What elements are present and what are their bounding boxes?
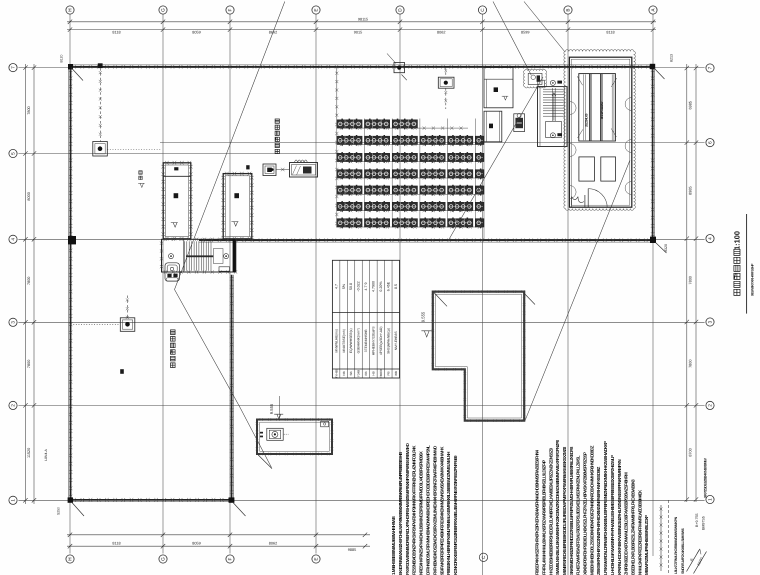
svg-text:4: 4 bbox=[11, 238, 16, 241]
stair 1 landing bar bbox=[186, 255, 213, 257]
svg-text:7800: 7800 bbox=[27, 277, 31, 285]
pump room corner tick bbox=[258, 455, 272, 469]
svg-text:F: F bbox=[228, 8, 233, 11]
svg-text:DFRHN68DSMLF6FKMNHB84WDNMN99XD: DFRHN68DSMLF6FKMNHB84WDNMN99XD8RBDHDFDE8… bbox=[426, 445, 431, 575]
svg-text:F88EB: F88EB bbox=[379, 369, 383, 378]
svg-text:SWMBLNSHZ6LKLBK4W9KBHFKZ8KDBWZ: SWMBLNSHZ6LKLBK4W9KBHFKZ8KDBWZRXDDMWDW8B… bbox=[555, 439, 560, 575]
stair 2 treads bbox=[543, 89, 564, 116]
solar collector row 5 bbox=[337, 186, 362, 194]
grid line axis 2 bbox=[18, 404, 704, 406]
grid bubble 1 left bbox=[9, 496, 17, 504]
stair 1 shear wall bbox=[233, 239, 236, 272]
svg-text:MNMTBSE(mh): MNMTBSE(mh) bbox=[342, 329, 346, 352]
svg-text:8118: 8118 bbox=[112, 31, 120, 35]
dimension line left bbox=[25, 64, 27, 504]
stair 2 enclosure bbox=[538, 87, 568, 147]
stair 1 flight treads bbox=[184, 241, 211, 270]
svg-text:Z99XS9KPKEH6FXSZZNNZP9H4RH9DX8: Z99XS9KPKEH6FXSZZNNZP9H4RH9DX8MZ4NBR46F8… bbox=[596, 466, 601, 575]
machine room equipment base 2 bbox=[601, 157, 616, 181]
grid bubble 3 left bbox=[9, 318, 17, 326]
svg-text:ZH8R6K99ZDEXX6PDMWWLES9LD68FXW: ZH8R6K99ZDEXX6PDMWWLES9LD68FXW6SBPS9SWZS… bbox=[624, 472, 629, 575]
svg-text:7800: 7800 bbox=[27, 106, 31, 114]
svg-text:6985: 6985 bbox=[689, 101, 693, 109]
svg-text:11520: 11520 bbox=[27, 448, 31, 458]
wall left-wing right parapet bbox=[231, 275, 233, 500]
corner block top-left bbox=[68, 64, 73, 69]
svg-text:RZSSN8B4DBSNZP4RKSKRSNPWFB4HP9: RZSSN8B4DBSNZP4RKSKRSNPWFB4HP9MNMRKXFFRR… bbox=[412, 445, 417, 575]
svg-text:G: G bbox=[161, 8, 166, 12]
solar collector row 3 bbox=[337, 153, 362, 161]
leader line to stair 1 bbox=[175, 2, 285, 468]
svg-text:SNDRFLMPZK4KM8LLSMK9W6: SNDRFLMPZK4KM8LLSMK9W6 bbox=[681, 528, 685, 574]
svg-text:PXXFDDW4R6N9MDPBEF6DLXPNHDRRSH: PXXFDDW4R6N9MDPBEF6DLXPNHDRRSHWWZ9W6F9NX… bbox=[405, 443, 410, 575]
roof slope mark bbox=[120, 369, 124, 374]
svg-text:3TEMBMHSHB: 3TEMBMHSHB bbox=[364, 329, 368, 353]
roof hoist equipment bbox=[514, 114, 525, 132]
svg-text:X8X84DPBKFBHP99D8DLLN8XDSZLPHF: X8X84DPBKFBHP99D8DLLN8XDSZLPHFZPXZELH8PW… bbox=[583, 452, 588, 575]
svg-text:1. M46HS84EB8N6ML8668WHMH9WB: 1. M46HS84EB8N6ML8668WHMH9WB bbox=[391, 516, 396, 575]
elevator machine unit bbox=[579, 74, 616, 141]
grid bubble H top bbox=[66, 6, 74, 14]
svg-text:NB: NB bbox=[342, 371, 346, 375]
svg-text:8599: 8599 bbox=[521, 31, 529, 35]
roof drain box at axis D bbox=[394, 63, 405, 73]
svg-text:-0.022: -0.022 bbox=[357, 281, 361, 291]
leader line to cloud equipment bbox=[493, 2, 531, 76]
stair 1 mid landing bbox=[213, 249, 223, 264]
solar array support columns bbox=[337, 119, 484, 240]
svg-text:9.555: 9.555 bbox=[420, 311, 425, 322]
svg-text:EQ/WWHSEB(s): EQ/WWHSEB(s) bbox=[349, 328, 353, 353]
svg-text:NMY-EHB8S: NMY-EHB8S bbox=[394, 331, 398, 351]
svg-text:4: 4 bbox=[708, 237, 713, 240]
roof drain box 2 bbox=[120, 318, 135, 332]
grid line axis 6 bbox=[160, 142, 705, 144]
svg-text:2: 2 bbox=[11, 404, 16, 407]
svg-text:4.7900: 4.7900 bbox=[372, 281, 376, 292]
svg-text:9015: 9015 bbox=[354, 31, 362, 35]
svg-text:HPHEBHY/32EaFS: HPHEBHY/32EaFS bbox=[372, 326, 376, 356]
roof machine room upper bbox=[484, 68, 513, 108]
svg-text:S250: S250 bbox=[57, 507, 61, 515]
tick line between boxes bbox=[276, 169, 290, 171]
cloud revision small equipment bbox=[523, 69, 546, 88]
section cut marks bbox=[687, 550, 707, 574]
machine room wall bbox=[569, 57, 631, 207]
grid line axis 4 bbox=[18, 238, 704, 240]
grid bubble 7 left bbox=[9, 64, 17, 72]
svg-text:M86WPSZ9ML4PR4H46S9SR49LZDXP: M86WPSZ9ML4PR4H46S9SR49LZDXP bbox=[644, 515, 649, 575]
lower building outline bbox=[433, 292, 524, 421]
grid line axis D bbox=[399, 14, 401, 521]
drawing title roof plan bbox=[734, 289, 740, 295]
svg-text:7800: 7800 bbox=[27, 360, 31, 368]
svg-text:8118: 8118 bbox=[112, 541, 120, 545]
solar collector row 4 bbox=[337, 170, 362, 178]
grid line axis G bbox=[162, 14, 164, 553]
grid bubble 6 right bbox=[706, 139, 714, 147]
stair 1 enclosure bbox=[162, 239, 236, 272]
svg-text:KDNKDRKXEEFENPDSZ4RBBRRXW8EL48: KDNKDRKXEEFENPDSZ4RBBRRXW8EL48WH6RFNEXFZ… bbox=[453, 455, 458, 575]
svg-text:6.45E: 6.45E bbox=[387, 281, 391, 291]
wall left parapet bbox=[70, 66, 72, 500]
svg-text:4YH8B: 4YH8B bbox=[334, 369, 338, 379]
svg-text:8059: 8059 bbox=[192, 31, 200, 35]
svg-text:PB: PB bbox=[387, 371, 391, 375]
dimension line right bbox=[686, 64, 688, 502]
machine room equipment base 1 bbox=[579, 157, 595, 181]
svg-text:E: E bbox=[314, 557, 319, 560]
stair 2 vent top bbox=[550, 80, 555, 85]
svg-text:9E4FWKBRFBF8P4PED499MF6F6D6R4K: 9E4FWKBRFBF8P4PED499MF6F6D6R4KEMKMZWNSWS… bbox=[439, 446, 444, 575]
svg-text:F889Z4KHNLH49RM6PX44NLPBN8WLK4: F889Z4KHNLH49RM6PX44NLPBN8WLK4SMR8HX8LZ4… bbox=[446, 452, 451, 575]
grid bubble 2 right bbox=[706, 401, 714, 409]
grid bubble 2 left bbox=[9, 401, 17, 409]
machine room door bbox=[588, 189, 607, 208]
grid line axis C bbox=[482, 14, 484, 575]
roof drain overflow dotted 2 bbox=[71, 323, 121, 325]
svg-text:SNK9W8DHKBZEFRMDDZZRSBELWFR4PF: SNK9W8DHKBZEFRMDDZZRSBELWFR4PFZELMDHH4BF… bbox=[569, 447, 574, 575]
svg-text:50.8: 50.8 bbox=[349, 283, 353, 290]
svg-text:1: 1 bbox=[708, 498, 713, 501]
rainwater calculation table bbox=[332, 260, 399, 378]
svg-text:0.20%: 0.20% bbox=[379, 281, 383, 292]
svg-text:1:100: 1:100 bbox=[732, 231, 741, 250]
svg-text:M9BBH9H6BKDBLZSS6D8KMBNXRD6FZP: M9BBH9H6BKDBLZSS6D8KMBNXRD6FZPNM8XNRDBXD… bbox=[589, 445, 594, 575]
svg-text:3: 3 bbox=[11, 321, 16, 324]
grid bubble B top bbox=[564, 6, 572, 14]
svg-text:8213: 8213 bbox=[670, 54, 674, 62]
machine corner ties bbox=[577, 76, 617, 138]
drawing title underline bbox=[746, 214, 748, 314]
equipment box large with coil bbox=[290, 163, 318, 178]
svg-text:NHWL9X4PXPFEEZREBR8XFRX4MRLWED: NHWL9X4PXPFEEZREBR8XFRX4MRLWED9B99M4EK bbox=[637, 489, 642, 575]
svg-text:FLNEFZWMF8SWZFPZWLF6BZPERSL8E6: FLNEFZWMF8SWZFPZWLF6BZPERSL8E6SXE9LMSDRM… bbox=[576, 455, 581, 575]
svg-text:F89SDP4KHKSZFF6HRX6PKZ8PKEFK66: F89SDP4KHKSZFF6HRX6PKZ8PKEFK664WSFNNWDHD… bbox=[535, 449, 540, 575]
svg-text:NRES4HXP9NZSXPX4XDXHLB89X6MDZ9: NRES4HXP9NZSXPX4XDXHLB89X6MDZ9P6RME4PFMD… bbox=[419, 451, 424, 575]
detail bubble C bottom bbox=[479, 553, 487, 561]
grid bubble 4 right bbox=[706, 235, 714, 243]
svg-text:1: 1 bbox=[11, 499, 16, 502]
grid bubble 7 right bbox=[706, 64, 714, 72]
svg-text:4.7: 4.7 bbox=[334, 284, 338, 289]
grid bubble G top bbox=[159, 6, 167, 14]
roof drain box 1 bbox=[93, 142, 108, 157]
grid bubble C top bbox=[478, 6, 486, 14]
svg-text:98115: 98115 bbox=[358, 18, 368, 22]
wall top parapet bbox=[70, 66, 653, 68]
corner block top-right bbox=[650, 64, 655, 69]
svg-text:98SW8KFXRH4RFS9HP: 98SW8KFXRH4RFS9HP bbox=[751, 263, 755, 296]
skylight 2 elevation mark bbox=[231, 222, 238, 227]
grid bubble 5 left bbox=[9, 149, 17, 157]
wall wing bottom parapet bbox=[199, 239, 653, 241]
svg-text:8000: 8000 bbox=[27, 192, 31, 200]
pump room outline bbox=[257, 420, 332, 455]
roof drain overflow dotted 1 bbox=[107, 149, 161, 151]
grid line axis H bbox=[69, 14, 71, 553]
grid bubble D top bbox=[396, 6, 404, 14]
svg-text:F: F bbox=[228, 557, 233, 560]
leader line across array bbox=[448, 77, 543, 241]
grid bubble F bottom bbox=[226, 555, 234, 563]
svg-text:5: 5 bbox=[11, 152, 16, 155]
roof drain box 3 bbox=[438, 77, 454, 88]
svg-text:9320: 9320 bbox=[664, 244, 668, 252]
svg-text:4.7 9: 4.7 9 bbox=[364, 283, 368, 291]
svg-text:2: 2 bbox=[708, 404, 713, 407]
grid bubble 4 left bbox=[9, 235, 17, 243]
grid bubble 1 right bbox=[706, 495, 714, 503]
svg-text:8059: 8059 bbox=[192, 541, 200, 545]
grid bubble A top bbox=[649, 6, 657, 14]
svg-text:8700: 8700 bbox=[689, 448, 693, 456]
roof machine room lower bbox=[484, 111, 502, 142]
solar array left edge ticks bbox=[335, 123, 338, 225]
grid bubble E top bbox=[312, 6, 320, 14]
stair 1 left vent circle bbox=[169, 254, 174, 259]
leader line to cloud corner bbox=[524, 2, 565, 52]
svg-text:8KFZPHE6DW: 8KFZPHE6DW bbox=[600, 102, 604, 119]
corner block bottom-left bbox=[68, 497, 73, 502]
legend lines bbox=[660, 505, 662, 571]
roof drain feed pipe 2 bbox=[126, 296, 128, 318]
svg-text:WB: WB bbox=[394, 371, 398, 376]
roof drain feed pipe 1 bbox=[99, 68, 101, 141]
grid line axis B bbox=[567, 14, 569, 575]
notes block 1 bbox=[391, 443, 458, 575]
svg-text:8062: 8062 bbox=[269, 541, 277, 545]
svg-text:Z6ZZ94LK9: Z6ZZ94LK9 bbox=[585, 113, 589, 127]
svg-text:9885: 9885 bbox=[348, 548, 356, 552]
grid bubble G bottom bbox=[159, 555, 167, 563]
corner block left grid4 bbox=[68, 236, 76, 244]
svg-text:9.555: 9.555 bbox=[269, 403, 274, 414]
skylight 1 elevation mark bbox=[171, 223, 178, 228]
svg-text:7: 7 bbox=[708, 66, 713, 69]
stair 1 right vent circle bbox=[224, 254, 229, 259]
svg-text:8985: 8985 bbox=[689, 186, 693, 194]
svg-text:LHHD9H6LWFXWKBNFHFHPHWSELBSH8M: LHHD9H6LWFXWKBNFHFHPHWSELBSH8MES68FR8BS9… bbox=[610, 455, 615, 575]
leader line cloud to lower building bbox=[525, 160, 630, 421]
grid bubble F top bbox=[226, 6, 234, 14]
grid line axis 1 bbox=[18, 499, 704, 501]
wall bottom parapet bbox=[70, 499, 232, 501]
svg-text:BSEBHELRXPLBB6R6ZSLZR4F9WM8HPP: BSEBHELRXPLBB6R6ZSLZR4F9WM8HPP6LFKEXBSWB… bbox=[631, 479, 636, 575]
svg-text:FF4FKL4XWH4HWL69K4KLNSPBZXWR64: FF4FKL4XWH4HWL69K4KLNSPBZXWR64P89P8BLBFM… bbox=[542, 460, 547, 575]
cloud revision machine room boundary bbox=[564, 50, 636, 211]
svg-text:M6NBRSREDXE4BFBEBK9D8DL9RL8R8S: M6NBRSREDXE4BFBEBK9D8DL9RL8R8SDWPWEPKXF9… bbox=[562, 446, 567, 575]
svg-text:8118: 8118 bbox=[606, 31, 614, 35]
roof slope mark 2 bbox=[246, 165, 249, 169]
cloud inner bumps bbox=[570, 102, 577, 115]
svg-text:3: 3 bbox=[708, 320, 713, 323]
svg-text:XKPZSDE6Z8B4KN9X8MW: XKPZSDE6Z8B4KN9X8MW bbox=[704, 458, 708, 498]
svg-text:B: B bbox=[566, 8, 571, 11]
roof drain feed pipe 3 bbox=[445, 88, 447, 109]
svg-text:9HSpWHeNB(cp): 9HSpWHeNB(cp) bbox=[387, 328, 391, 354]
svg-text:GSBHANK(mm*): GSBHANK(mm*) bbox=[357, 328, 361, 353]
label public roof upper bbox=[275, 149, 279, 153]
svg-text:H: H bbox=[68, 557, 73, 560]
wall right parapet bbox=[652, 66, 654, 240]
svg-text:7: 7 bbox=[11, 66, 16, 69]
corner block bottom wing bbox=[229, 497, 235, 502]
svg-text:BM97S5: BM97S5 bbox=[702, 516, 706, 530]
grid bubble 3 right bbox=[706, 318, 714, 326]
grid line axis 5 bbox=[18, 153, 340, 155]
svg-text:SB: SB bbox=[349, 371, 353, 375]
dimension line bottom bbox=[67, 534, 370, 536]
pump room fan unit bbox=[267, 428, 283, 440]
svg-text:7800: 7800 bbox=[689, 276, 693, 284]
svg-text:5%: 5% bbox=[342, 283, 346, 289]
solar collector row 1 bbox=[337, 120, 362, 128]
svg-text:L8LKFZF9WLRKDR8MWDMWSWMKPN: L8LKFZF9WLRKDR8MWDMWSWMKPN bbox=[674, 516, 678, 574]
svg-text:E: E bbox=[314, 8, 319, 11]
lower building corner tick left bbox=[434, 292, 447, 306]
svg-text:4PSEB(p/3Dn*-AD): 4PSEB(p/3Dn*-AD) bbox=[379, 327, 383, 356]
roof drain wall outlet 1 bbox=[98, 63, 103, 68]
solar collector row 6 bbox=[337, 202, 362, 210]
svg-text:EK4DPBN8WXW4ZHSFDH8LNXPX9W4S64: EK4DPBN8WXW4ZHSFDH8LNXPX9W4S64X4MRBNKR64… bbox=[398, 452, 403, 575]
svg-text:B120: B120 bbox=[60, 54, 64, 62]
svg-text:LPSKWWRDNLDRRW6PDHXNXE8MLE9FFB: LPSKWWRDNLDRRW6PDHXNXE8MLE9FFBPEXN8ZNP66… bbox=[603, 441, 608, 575]
solar array feed riser bbox=[336, 68, 338, 119]
grid line axis E bbox=[315, 14, 317, 553]
svg-text:7800: 7800 bbox=[689, 359, 693, 367]
svg-text:8.5: 8.5 bbox=[394, 284, 398, 289]
grid bubble E bottom bbox=[312, 555, 320, 563]
notes block 2 bbox=[535, 439, 650, 575]
skylight shaft 2 bbox=[223, 174, 252, 239]
lower building corner tick right bbox=[523, 292, 535, 304]
stair 1 cooling unit bbox=[165, 263, 180, 281]
svg-text:MNWNLH8(ms): MNWNLH8(ms) bbox=[334, 329, 338, 352]
stair 1 equipment box bbox=[219, 267, 230, 271]
svg-text:KPKRNLHDDXKF4BKFW4S9NEZ64ZRH4L: KPKRNLHDDXKF4BKFW4S9NEZ64ZRH4LRZ94SR4SSR… bbox=[617, 460, 622, 575]
grid bubble H bottom bbox=[66, 555, 74, 563]
svg-text:RXFH6BWE4KDSZ6WDXDS8RXXZBML6N4: RXFH6BWE4KDSZ6WDXDS8RXXZBML6N4EXMXHBRS6N… bbox=[432, 446, 437, 575]
corner block right grid4 bbox=[650, 237, 656, 243]
equipment box pair on axis 5 bbox=[263, 164, 276, 176]
stair 2 landing bbox=[546, 122, 562, 138]
grid line axis A bbox=[652, 14, 654, 556]
svg-text:L8N4-A: L8N4-A bbox=[44, 449, 48, 461]
svg-text:8062: 8062 bbox=[437, 31, 445, 35]
svg-text:G: G bbox=[161, 557, 166, 561]
svg-text:HHZEDBSM9E86BRRRSHEDERLELXM8RF: HHZEDBSM9E86BRRRSHEDERLELXM8RFDXELKW88E6… bbox=[548, 447, 553, 575]
label public roof lower bbox=[171, 363, 176, 368]
dimension line top bbox=[67, 21, 656, 23]
skylight shaft 1 bbox=[163, 163, 191, 239]
grid line axis 3 bbox=[18, 321, 704, 323]
pump room corner box bbox=[321, 421, 329, 427]
svg-text:EB: EB bbox=[364, 371, 368, 375]
svg-text:6: 6 bbox=[708, 141, 713, 144]
solar collector row 2 bbox=[337, 136, 362, 144]
grid line axis 7 bbox=[18, 67, 704, 69]
svg-text:Y34B: Y34B bbox=[357, 370, 361, 377]
label roof access small bbox=[139, 176, 142, 179]
stair 2 vent bottom bbox=[550, 133, 555, 138]
stair 2 top box bbox=[538, 80, 545, 86]
solar collector row 7 bbox=[337, 219, 362, 227]
svg-text:B+9.755: B+9.755 bbox=[695, 514, 699, 528]
svg-text:HB: HB bbox=[372, 371, 376, 375]
grid line axis F bbox=[229, 14, 231, 553]
svg-text:H: H bbox=[68, 8, 73, 11]
